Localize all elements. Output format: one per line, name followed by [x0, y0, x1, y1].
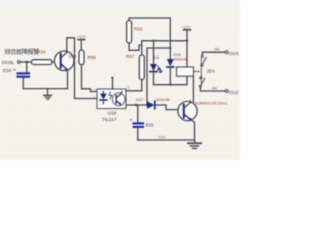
wire R34 to Q18 base [52, 61, 60, 63]
junction input node [26, 61, 29, 64]
power +12V right [182, 25, 191, 67]
junction E15 node [135, 104, 137, 106]
transistor Q3 [178, 101, 197, 121]
junction D26 rail [169, 84, 171, 86]
svg-text:1: 1 [93, 88, 95, 92]
power +12V left [77, 35, 86, 50]
diode D26 [167, 59, 174, 85]
svg-text:0N: 0N [215, 48, 220, 52]
wire R52 bottom jog [129, 43, 142, 50]
svg-text:R57: R57 [126, 54, 135, 59]
wire top rail from R52 [129, 18, 170, 59]
wire Q3 collector top [189, 101, 191, 103]
svg-text:U18: U18 [108, 111, 117, 117]
wire second rail y48 [147, 48, 170, 105]
relay linkage dashes [195, 71, 201, 73]
svg-text:L1: L1 [154, 55, 160, 60]
relay coil JD1 [177, 67, 194, 76]
junction D27 anode [146, 104, 148, 106]
svg-text:R56: R56 [88, 55, 97, 60]
ground left [44, 89, 52, 100]
svg-text:0N: 0N [212, 86, 217, 90]
opto base stub pin 6 [111, 77, 113, 89]
svg-text:OU2: OU2 [229, 90, 239, 95]
svg-text:1N4148: 1N4148 [174, 57, 189, 62]
diode D27 [147, 101, 183, 109]
ground right [188, 140, 201, 148]
svg-text:综合故障报警: 综合故障报警 [5, 48, 40, 56]
wire opto pin4 to D27 [126, 104, 146, 106]
transistor Q18 [54, 51, 74, 71]
svg-text:JRM1S-DC12V-C: JRM1S-DC12V-C [198, 100, 227, 105]
LED L1 [150, 40, 162, 85]
wire R57 top to +12V rail [141, 41, 143, 55]
wire input to R34 [20, 61, 31, 63]
wire Q18 collector to opto pin2 [67, 38, 97, 99]
svg-text:+12V: +12V [182, 25, 191, 29]
svg-text:JD1: JD1 [207, 69, 216, 75]
wire ground rail left [23, 88, 67, 90]
relay contact bottom [199, 77, 225, 91]
wire +12V rail right [142, 40, 187, 42]
wire coil to Q3 collector [192, 76, 194, 101]
capacitor E34 [13, 62, 30, 89]
svg-text:Q3: Q3 [194, 101, 199, 105]
relay contact top [201, 52, 226, 66]
terminal OU2 [225, 90, 228, 93]
wire Q3 emitter to ground [193, 121, 195, 140]
svg-text:Q18: Q18 [69, 54, 77, 59]
wire R56 to opto pin1 [82, 65, 98, 92]
terminal DC0L [17, 61, 20, 64]
svg-text:E15: E15 [146, 122, 154, 127]
wire coil bottom to cathode rail [154, 76, 188, 85]
svg-text:1: 1 [128, 86, 130, 90]
terminal OU3 [225, 51, 228, 54]
resistor R56 [79, 50, 84, 65]
svg-text:+: + [130, 118, 133, 124]
svg-text:2: 2 [93, 95, 95, 99]
resistor R34 [32, 60, 53, 65]
svg-text:R52: R52 [134, 27, 143, 32]
resistor R57 [139, 55, 144, 80]
capacitor E15 [130, 105, 144, 140]
wire opto pin5 to R57 [126, 80, 142, 91]
junction rail48 D26 [169, 47, 171, 49]
svg-text:+12V: +12V [77, 35, 86, 39]
svg-text:OU3: OU3 [229, 51, 239, 56]
wire Q18 emitter to ground rail [67, 70, 69, 88]
bottom rail [138, 139, 195, 141]
svg-text:R58: R58 [158, 135, 166, 140]
svg-text:DC0L: DC0L [2, 60, 15, 66]
svg-text:E34: E34 [3, 68, 12, 73]
svg-text:+: + [13, 68, 16, 74]
svg-text:D27: D27 [136, 97, 144, 102]
resistor R52 [127, 21, 132, 44]
svg-text:R34: R34 [37, 50, 46, 55]
svg-text:TIL117: TIL117 [102, 117, 117, 123]
optocoupler U18 [97, 89, 126, 109]
junction +12V rail [186, 40, 188, 42]
svg-text:1N4148: 1N4148 [156, 97, 171, 102]
